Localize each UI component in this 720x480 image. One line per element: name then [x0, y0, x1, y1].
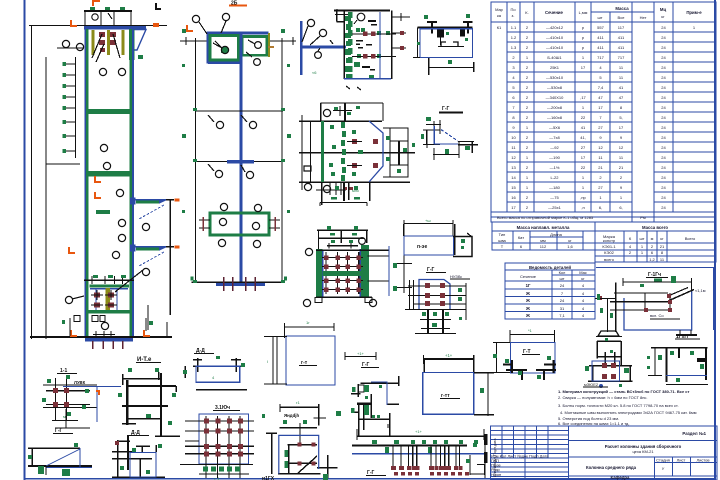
ladder rail	[75, 57, 77, 158]
svg-text:—180: —180	[549, 185, 560, 190]
table body text	[497, 25, 696, 210]
svg-text:717: 717	[618, 55, 625, 60]
splice olive bars	[92, 30, 125, 55]
blue top band	[84, 26, 146, 30]
left web	[417, 28, 419, 58]
cap green angle marks	[90, 7, 125, 10]
svg-text:Всего: Всего	[685, 236, 696, 241]
svg-text:24: 24	[661, 165, 666, 170]
small green ticks at outline	[182, 29, 291, 283]
joint side flange left	[199, 220, 280, 228]
svg-text:Прим-е: Прим-е	[686, 10, 702, 15]
svg-text:24: 24	[661, 185, 666, 190]
svg-text:шт: шт	[639, 236, 644, 241]
svg-text:—25х1: —25х1	[548, 205, 561, 210]
green mid band	[323, 271, 362, 276]
svg-text:Ж: Ж	[525, 306, 530, 311]
svg-text:—530х10: —530х10	[546, 75, 564, 80]
left edge	[343, 21, 345, 79]
batten 1	[86, 109, 132, 114]
svg-text:Масса: Масса	[615, 6, 629, 11]
svg-text:—92: —92	[550, 145, 559, 150]
svg-text:24: 24	[661, 35, 666, 40]
svg-text:,17: ,17	[580, 95, 586, 100]
blue right edge	[388, 246, 390, 296]
svg-text:24: 24	[661, 115, 666, 120]
svg-text:шт: шт	[597, 15, 602, 20]
orange mark top	[92, 0, 100, 6]
title right cells	[569, 440, 717, 480]
svg-text:и1ГХ: и1ГХ	[262, 476, 275, 480]
bottom dim	[429, 67, 474, 69]
batten 2	[86, 171, 132, 177]
svg-text:Рм: Рм	[640, 215, 646, 220]
green joint box	[210, 213, 269, 235]
svg-text:Тип: Тип	[499, 232, 506, 237]
svg-text:1,6: 1,6	[567, 244, 573, 249]
svg-text:НУЗбс: НУЗбс	[450, 274, 462, 279]
svg-text:—190: —190	[549, 155, 560, 160]
weld angle	[335, 14, 352, 16]
base line	[192, 281, 285, 283]
svg-text:41: 41	[619, 85, 624, 90]
svg-text:27: 27	[581, 145, 586, 150]
base blue bar	[85, 338, 133, 341]
svg-text:+1+: +1+	[445, 353, 453, 358]
svg-text:1,2: 1,2	[649, 257, 655, 262]
dim ticks	[330, 40, 333, 44]
svg-text:Лист: Лист	[677, 458, 686, 463]
svg-text:К.: К.	[525, 10, 528, 15]
svg-text:Кафедра: Кафедра	[611, 475, 631, 480]
svg-text:12: 12	[511, 155, 516, 160]
svg-text:По: По	[510, 7, 516, 12]
left chord green	[86, 29, 88, 338]
svg-text:—5Х6: —5Х6	[549, 125, 561, 130]
green speckle band	[345, 16, 351, 78]
maroon feet	[391, 466, 469, 476]
svg-text:22: 22	[581, 165, 586, 170]
cross line 2 with blue bar	[195, 161, 283, 163]
right dim line	[403, 251, 405, 293]
right green band	[361, 245, 369, 298]
svg-text:L,мм: L,мм	[579, 10, 588, 15]
svg-text:24: 24	[560, 298, 565, 303]
svg-text:24: 24	[661, 195, 666, 200]
svg-text:1.2: 1.2	[511, 35, 517, 40]
balloon	[357, 13, 365, 21]
green clip	[138, 55, 143, 59]
lower studs	[428, 309, 443, 334]
svg-text:24: 24	[661, 85, 666, 90]
svg-text:Длина: Длина	[550, 232, 562, 237]
svg-text:10: 10	[511, 135, 516, 140]
blue divider	[379, 12, 381, 79]
studs	[393, 446, 460, 467]
svg-text:17: 17	[619, 125, 624, 130]
svg-text:+ш: +ш	[425, 218, 431, 223]
svg-text:22: 22	[581, 115, 586, 120]
svg-text:констр: констр	[603, 238, 616, 243]
detail D-D small	[112, 430, 165, 478]
top flange line	[418, 27, 473, 29]
dim line	[623, 281, 692, 283]
table row lines	[491, 32, 716, 212]
svg-text:К1: К1	[497, 25, 502, 30]
svg-text:вкл. Со: вкл. Со	[650, 313, 664, 318]
svg-text:шва: шва	[498, 238, 506, 243]
right angle	[470, 455, 485, 475]
ladder green dots	[63, 62, 67, 153]
svg-text:557: 557	[597, 25, 604, 30]
svg-text:Г-Г: Г-Г	[442, 106, 449, 112]
balloons	[305, 248, 312, 255]
left weld mark	[304, 166, 311, 171]
svg-text:Масса всего: Масса всего	[642, 225, 668, 230]
svg-text:411: 411	[618, 45, 625, 50]
green box 1	[210, 36, 239, 61]
bolt glyph in box1	[221, 47, 228, 53]
top line	[334, 10, 390, 12]
blue plate	[420, 29, 473, 58]
blue bottom	[344, 78, 391, 80]
svg-text:2. Сварка — полуавтомат. h =: 2. Сварка — полуавтомат. h = 6мм по ГОСТ…	[558, 395, 648, 400]
svg-text:24: 24	[661, 25, 666, 30]
green box 2	[242, 37, 267, 56]
blue web	[300, 21, 303, 75]
right edge	[391, 11, 393, 80]
svg-text:п-эе: п-эе	[417, 244, 427, 250]
svg-text:цеха КМ-21: цеха КМ-21	[632, 449, 654, 454]
svg-text:шт: шт	[559, 276, 564, 281]
table header text	[495, 6, 702, 20]
svg-text:Нет: Нет	[640, 15, 647, 20]
svg-text:117: 117	[618, 25, 625, 30]
bolt column stems	[326, 252, 359, 294]
right chord blue	[132, 29, 134, 338]
base plate black line	[30, 336, 172, 338]
svg-text:кг: кг	[661, 14, 665, 19]
ladder dim line	[46, 163, 80, 165]
svg-text:12: 12	[598, 145, 603, 150]
left chord blue	[84, 29, 86, 338]
svg-text:6,: 6,	[619, 205, 622, 210]
svg-text:Мц: Мц	[660, 7, 667, 12]
dimension line left top	[29, 25, 167, 27]
right chord green	[130, 60, 133, 338]
bolt row arms	[322, 258, 363, 290]
base blue bar	[216, 283, 265, 286]
svg-text:Сечение: Сечение	[520, 274, 537, 279]
svg-text:мм: мм	[540, 238, 546, 243]
svg-text:Масса наплавл. металла: Масса наплавл. металла	[517, 225, 570, 230]
maroon bolts w/ wings	[347, 139, 378, 168]
orange corner markers	[70, 20, 77, 27]
svg-text:—1%: —1%	[550, 165, 560, 170]
blue gusset trapezoid	[135, 30, 147, 51]
detail 1-1	[42, 368, 121, 428]
base anchor ticks	[224, 277, 255, 291]
left green band	[316, 249, 323, 298]
branch plate 1	[130, 198, 180, 316]
black grid horizontals	[180, 421, 254, 474]
chord lines	[610, 293, 670, 311]
svg-text:Изм Кол Лист №док Подп Дата: Изм Кол Лист №док Подп Дата	[491, 454, 549, 459]
svg-text:1. Материал конструкций — стал: 1. Материал конструкций — сталь ВСт3пс6 …	[558, 389, 690, 394]
bolt line 1	[352, 33, 396, 35]
inner channel	[441, 42, 458, 46]
olive right edge	[268, 33, 270, 57]
svg-text:L-22: L-22	[550, 175, 559, 180]
lower joint detail	[84, 275, 134, 314]
svg-text:21: 21	[598, 165, 603, 170]
svg-text:717: 717	[597, 55, 604, 60]
svg-text:Мар: Мар	[495, 7, 504, 12]
top blue bar	[207, 32, 269, 35]
left verticals	[301, 115, 303, 190]
svg-text:—420х12: —420х12	[546, 25, 564, 30]
svg-text:,п: ,п	[581, 205, 584, 210]
svg-text:1Г: 1Г	[526, 283, 531, 288]
orange mark right of cap	[153, 23, 159, 27]
frame left border	[24, 0, 26, 480]
svg-text:16: 16	[511, 195, 516, 200]
svg-text:27: 27	[598, 185, 603, 190]
svg-text:5,: 5,	[619, 115, 622, 120]
svg-text:411: 411	[618, 35, 625, 40]
balloon bottom	[304, 183, 311, 190]
svg-text:24: 24	[661, 75, 666, 80]
svg-text:Все: Все	[618, 15, 626, 20]
svg-text:47: 47	[619, 95, 624, 100]
ticks below E	[346, 86, 350, 89]
svg-text:24: 24	[661, 105, 666, 110]
top and bottom lines	[316, 249, 389, 251]
svg-text:+1+: +1+	[415, 429, 423, 434]
detail rect top-right of row	[118, 368, 180, 437]
svg-text:—75: —75	[550, 195, 559, 200]
ladder rungs	[65, 64, 76, 151]
blue flange bar	[300, 46, 346, 49]
mass table header	[492, 222, 716, 231]
svg-text:—410х10: —410х10	[546, 45, 564, 50]
svg-text:13: 13	[511, 165, 516, 170]
right extensions	[368, 255, 390, 257]
svg-text:1г: 1г	[306, 320, 310, 325]
cross line 1	[195, 110, 283, 112]
mid squiggles	[356, 20, 377, 71]
svg-text:24: 24	[560, 283, 565, 288]
table grid	[491, 2, 716, 222]
svg-text:25К1: 25К1	[550, 65, 560, 70]
svg-text:21: 21	[660, 244, 665, 249]
bolt row lines	[405, 286, 466, 310]
svg-text:Раздел №1: Раздел №1	[682, 431, 706, 436]
detail G-G diag	[28, 428, 92, 476]
bottom anchor stubs	[316, 182, 346, 195]
svg-text:—7х8: —7х8	[549, 135, 560, 140]
svg-text:мЗЮЕ2: мЗЮЕ2	[584, 382, 599, 387]
svg-text:47: 47	[598, 95, 603, 100]
svg-text:—200х8: —200х8	[547, 105, 563, 110]
svg-text:—160х8: —160х8	[547, 115, 563, 120]
balloons K1	[62, 40, 149, 336]
svg-text:Кат: Кат	[518, 235, 524, 240]
svg-text:—410х10: —410х10	[546, 35, 564, 40]
svg-text:Сечение: Сечение	[545, 10, 564, 15]
top dim lines	[180, 40, 208, 42]
svg-text:411: 411	[597, 45, 604, 50]
svg-text:12: 12	[619, 145, 624, 150]
mass table right	[595, 231, 716, 262]
maroon bolts	[425, 283, 445, 306]
svg-text:≈6: ≈6	[312, 70, 317, 75]
svg-text:21: 21	[619, 165, 624, 170]
svg-text:1.1: 1.1	[511, 25, 517, 30]
svg-text:24: 24	[661, 145, 666, 150]
dimension vertical x46	[45, 57, 47, 339]
balloon	[323, 109, 330, 116]
svg-text:з.: з.	[512, 13, 515, 18]
corner feet	[315, 298, 322, 303]
svg-text:17: 17	[581, 65, 586, 70]
svg-text:27: 27	[598, 125, 603, 130]
svg-text:24: 24	[661, 125, 666, 130]
bottom line	[299, 181, 410, 183]
svg-text:Всего масса по отправочной мар: Всего масса по отправочной марке К-1 общ…	[497, 215, 594, 220]
svg-text:3. Болты норм. точности М20 кл: 3. Болты норм. точности М20 кл. 5.8 по Г…	[558, 403, 679, 408]
support	[598, 331, 619, 336]
blue box	[624, 291, 692, 330]
notch	[336, 11, 338, 22]
svg-text:24: 24	[661, 175, 666, 180]
svg-text:17: 17	[598, 105, 603, 110]
svg-text:6,: 6,	[599, 205, 602, 210]
svg-text:кг: кг	[581, 276, 585, 281]
cap plate top line	[84, 10, 132, 12]
maroon dots	[598, 294, 672, 312]
svg-text:41: 41	[581, 125, 586, 130]
svg-text:Яндdjh: Яндdjh	[284, 413, 299, 418]
svg-text:24: 24	[661, 205, 666, 210]
svg-text:всего: всего	[604, 257, 615, 262]
green band vertical	[321, 121, 324, 182]
right brackets	[392, 16, 410, 18]
svg-text:7,4: 7,4	[598, 85, 604, 90]
maroon bolts	[204, 419, 243, 457]
svg-text:ЛУВК: ЛУВК	[74, 380, 86, 385]
footer note row	[491, 212, 716, 222]
svg-text:7,1: 7,1	[559, 313, 565, 318]
frame bottom border	[24, 478, 716, 480]
svg-text:24: 24	[661, 155, 666, 160]
svg-text:17: 17	[511, 205, 516, 210]
blue plate	[419, 280, 450, 310]
blue region line	[596, 267, 714, 269]
svg-text:+1+: +1+	[357, 351, 365, 356]
cap verticals	[85, 11, 131, 26]
svg-text:Мас: Мас	[579, 270, 587, 275]
outer top line	[299, 120, 382, 122]
bolt line 2	[352, 56, 396, 58]
svg-text:—530х8: —530х8	[547, 85, 563, 90]
base ticks row	[93, 331, 115, 338]
svg-text:Кол: Кол	[559, 270, 566, 275]
svg-text:кг: кг	[660, 236, 664, 241]
svg-text:Листов: Листов	[697, 458, 710, 463]
svg-text:I: I	[267, 359, 268, 364]
top connection frame	[321, 102, 383, 104]
revision grid	[491, 426, 569, 480]
balloons	[302, 19, 327, 58]
diagonals	[668, 290, 694, 302]
left verticals	[409, 280, 411, 310]
outline verticals	[195, 38, 197, 283]
svg-text:24: 24	[661, 135, 666, 140]
svg-text:24: 24	[661, 95, 666, 100]
svg-text:,пр: ,пр	[580, 195, 586, 200]
black frame marks left of title block	[484, 434, 488, 445]
green gusset band top	[129, 29, 135, 60]
svg-text:Н.кон: Н.кон	[491, 472, 501, 477]
svg-text:КЭ02: КЭ02	[604, 250, 614, 255]
svg-text:т 4: т 4	[214, 476, 220, 480]
maroon bolts	[324, 256, 361, 293]
mass table left	[492, 231, 595, 250]
right black fixture	[383, 128, 408, 177]
blue plate outline right	[369, 121, 383, 182]
svg-text:17: 17	[581, 155, 586, 160]
svg-text:≈1,1м: ≈1,1м	[695, 288, 706, 293]
svg-text:кг: кг	[568, 238, 572, 243]
svg-text:4. Монтажные швы выполнять эле: 4. Монтажные швы выполнять электродами Э…	[560, 410, 697, 415]
svg-text:15: 15	[511, 185, 516, 190]
svg-text:24: 24	[661, 65, 666, 70]
svg-text:У: У	[662, 466, 665, 471]
svg-text:6. Все соединения на швах 1=1.: 6. Все соединения на швах 1=1.1 и тд.	[558, 421, 629, 426]
right vertical	[465, 283, 467, 320]
svg-text:м: м	[651, 236, 654, 241]
svg-text:Ж: Ж	[525, 291, 530, 296]
svg-text:КЭ01-1: КЭ01-1	[602, 244, 616, 249]
base anchor ticks	[93, 341, 123, 349]
svg-text:112: 112	[540, 244, 547, 249]
spine blue	[240, 34, 243, 284]
left post	[607, 299, 609, 333]
svg-text:—340Х10: —340Х10	[546, 95, 565, 100]
svg-text:Б-40Ш1: Б-40Ш1	[547, 55, 562, 60]
svg-text:24: 24	[661, 45, 666, 50]
balloons column2	[192, 13, 261, 247]
green speckle dashed column	[329, 122, 363, 181]
svg-text:31: 31	[560, 306, 565, 311]
svg-text:411: 411	[597, 35, 604, 40]
svg-text:Ж: Ж	[525, 313, 530, 318]
svg-text:24: 24	[661, 55, 666, 60]
bottom flanges	[503, 360, 556, 380]
blue inner edges	[322, 250, 324, 297]
svg-text:Ж: Ж	[525, 298, 530, 303]
svg-text:м: м	[63, 414, 66, 419]
svg-text:Колонна среднего ряда: Колонна среднего ряда	[586, 465, 637, 470]
center line	[299, 152, 415, 154]
svg-text:41,: 41,	[580, 135, 586, 140]
green speckle column	[348, 12, 390, 79]
batten small mid	[96, 210, 110, 214]
svg-text:14: 14	[511, 175, 516, 180]
branch plate 2	[130, 245, 180, 331]
splice maroon bolts	[99, 32, 116, 52]
